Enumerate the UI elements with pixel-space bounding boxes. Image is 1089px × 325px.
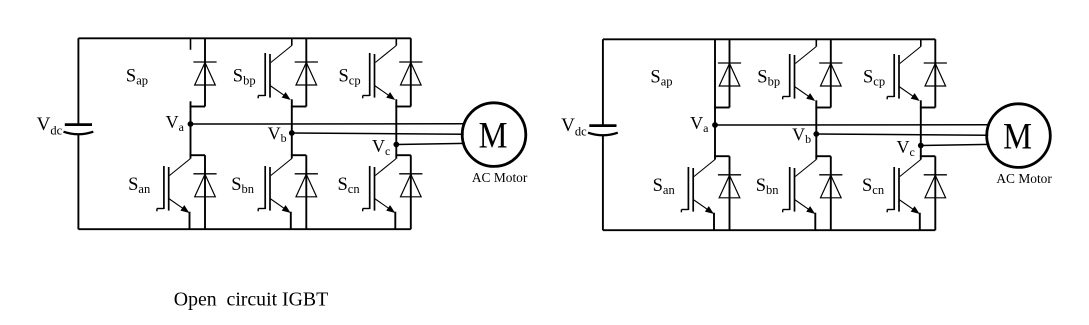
svg-text:M: M (1003, 117, 1032, 157)
svg-text:Open circuit IGBT: Open circuit IGBT (174, 288, 328, 310)
svg-text:M: M (479, 116, 508, 156)
svg-text:AC Motor: AC Motor (996, 171, 1052, 186)
svg-text:AC Motor: AC Motor (472, 170, 528, 185)
